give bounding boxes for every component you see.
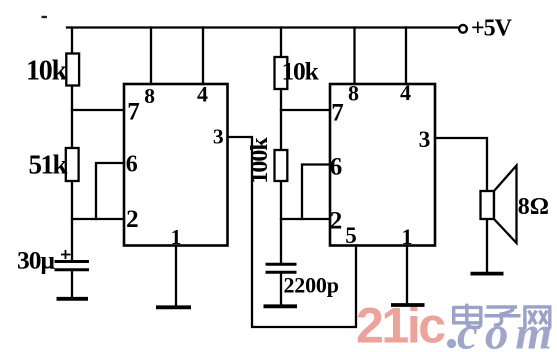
wire IC1 pin1 to ground — [175, 246, 177, 306]
wire rail to 10k (second) — [280, 28, 282, 58]
svg-text:5: 5 — [345, 223, 357, 248]
svg-text:6: 6 — [126, 152, 138, 178]
wire IC2 pin3 to speaker — [435, 138, 487, 191]
capacitor 2200p — [266, 264, 297, 272]
wire +5V top rail — [67, 26, 459, 28]
wire 100k to 2200p (junction at pin2) — [280, 181, 282, 263]
wire IC1 pin2 — [72, 218, 124, 220]
svg-text:1: 1 — [402, 224, 413, 249]
capacitor 30u electrolytic — [55, 250, 90, 270]
svg-text:30μ: 30μ — [17, 246, 56, 275]
svg-text:3: 3 — [213, 124, 224, 148]
ground (2200p) — [264, 304, 298, 308]
svg-text:1: 1 — [171, 225, 182, 249]
svg-text:10k: 10k — [282, 56, 320, 85]
svg-text:6: 6 — [330, 154, 343, 181]
svg-text:2: 2 — [330, 208, 343, 235]
svg-text:3: 3 — [419, 127, 431, 153]
wire 2200p to ground — [280, 274, 282, 304]
wire left branch down from rail — [71, 28, 73, 55]
resistor 51k — [66, 148, 79, 181]
wire IC2 pin2 — [281, 218, 330, 220]
svg-text:100k: 100k — [247, 137, 273, 184]
wire IC1 pin7 — [72, 109, 124, 111]
svg-text:+5V: +5V — [471, 15, 513, 41]
op-amp U1 555 timer box — [124, 84, 228, 246]
wire 51k to 30u cap — [71, 181, 73, 260]
svg-text:8Ω: 8Ω — [518, 194, 549, 220]
speaker LS 8ohm — [481, 166, 517, 244]
svg-text:8: 8 — [144, 84, 155, 108]
wire 30u cap to ground — [71, 271, 73, 297]
svg-text:10k: 10k — [26, 56, 68, 87]
terminal +5V circle — [459, 25, 467, 33]
svg-text:4: 4 — [400, 80, 411, 105]
wire IC1 pin8 from rail — [150, 28, 152, 85]
wire IC2 pin1 to ground — [406, 246, 408, 304]
svg-text:2: 2 — [126, 206, 139, 233]
resistor 100k — [275, 150, 288, 181]
resistor 10k (left) — [66, 54, 79, 86]
wire 10k to 51k (junction at pin7 wire) — [71, 86, 73, 148]
char 网 — [523, 306, 551, 330]
ground (U2 pin1) — [391, 303, 425, 307]
ground (speaker) — [471, 272, 504, 276]
char 子 — [485, 307, 521, 325]
ground (U1 pin1) — [156, 305, 191, 309]
wire IC2 pin8 from rail — [353, 28, 355, 85]
wire IC2 pin7 — [281, 109, 330, 111]
svg-text:8: 8 — [348, 80, 359, 105]
svg-text:2200p: 2200p — [284, 273, 339, 298]
wire IC1 pin4 from rail — [202, 28, 204, 85]
wire IC1 pin6 loop — [96, 163, 124, 219]
char 电 — [454, 304, 482, 328]
svg-text:7: 7 — [331, 100, 344, 127]
resistor 10k (second) — [275, 57, 288, 89]
wire IC2 pin6 loop — [302, 165, 330, 220]
ground (30u) — [57, 297, 89, 301]
wire 10k to 100k (junction at pin7) — [280, 89, 282, 150]
svg-text:7: 7 — [127, 99, 140, 126]
wire speaker to ground — [486, 219, 488, 271]
wire IC2 pin4 from rail — [405, 28, 407, 85]
wire IC1 pin3 to IC2 pin5 — [228, 137, 357, 327]
svg-text:4: 4 — [197, 81, 208, 106]
watermark 21ic.com 电子网 — [356, 298, 557, 352]
op-amp U2 555 timer box — [330, 84, 435, 246]
svg-text:51k: 51k — [29, 150, 68, 180]
